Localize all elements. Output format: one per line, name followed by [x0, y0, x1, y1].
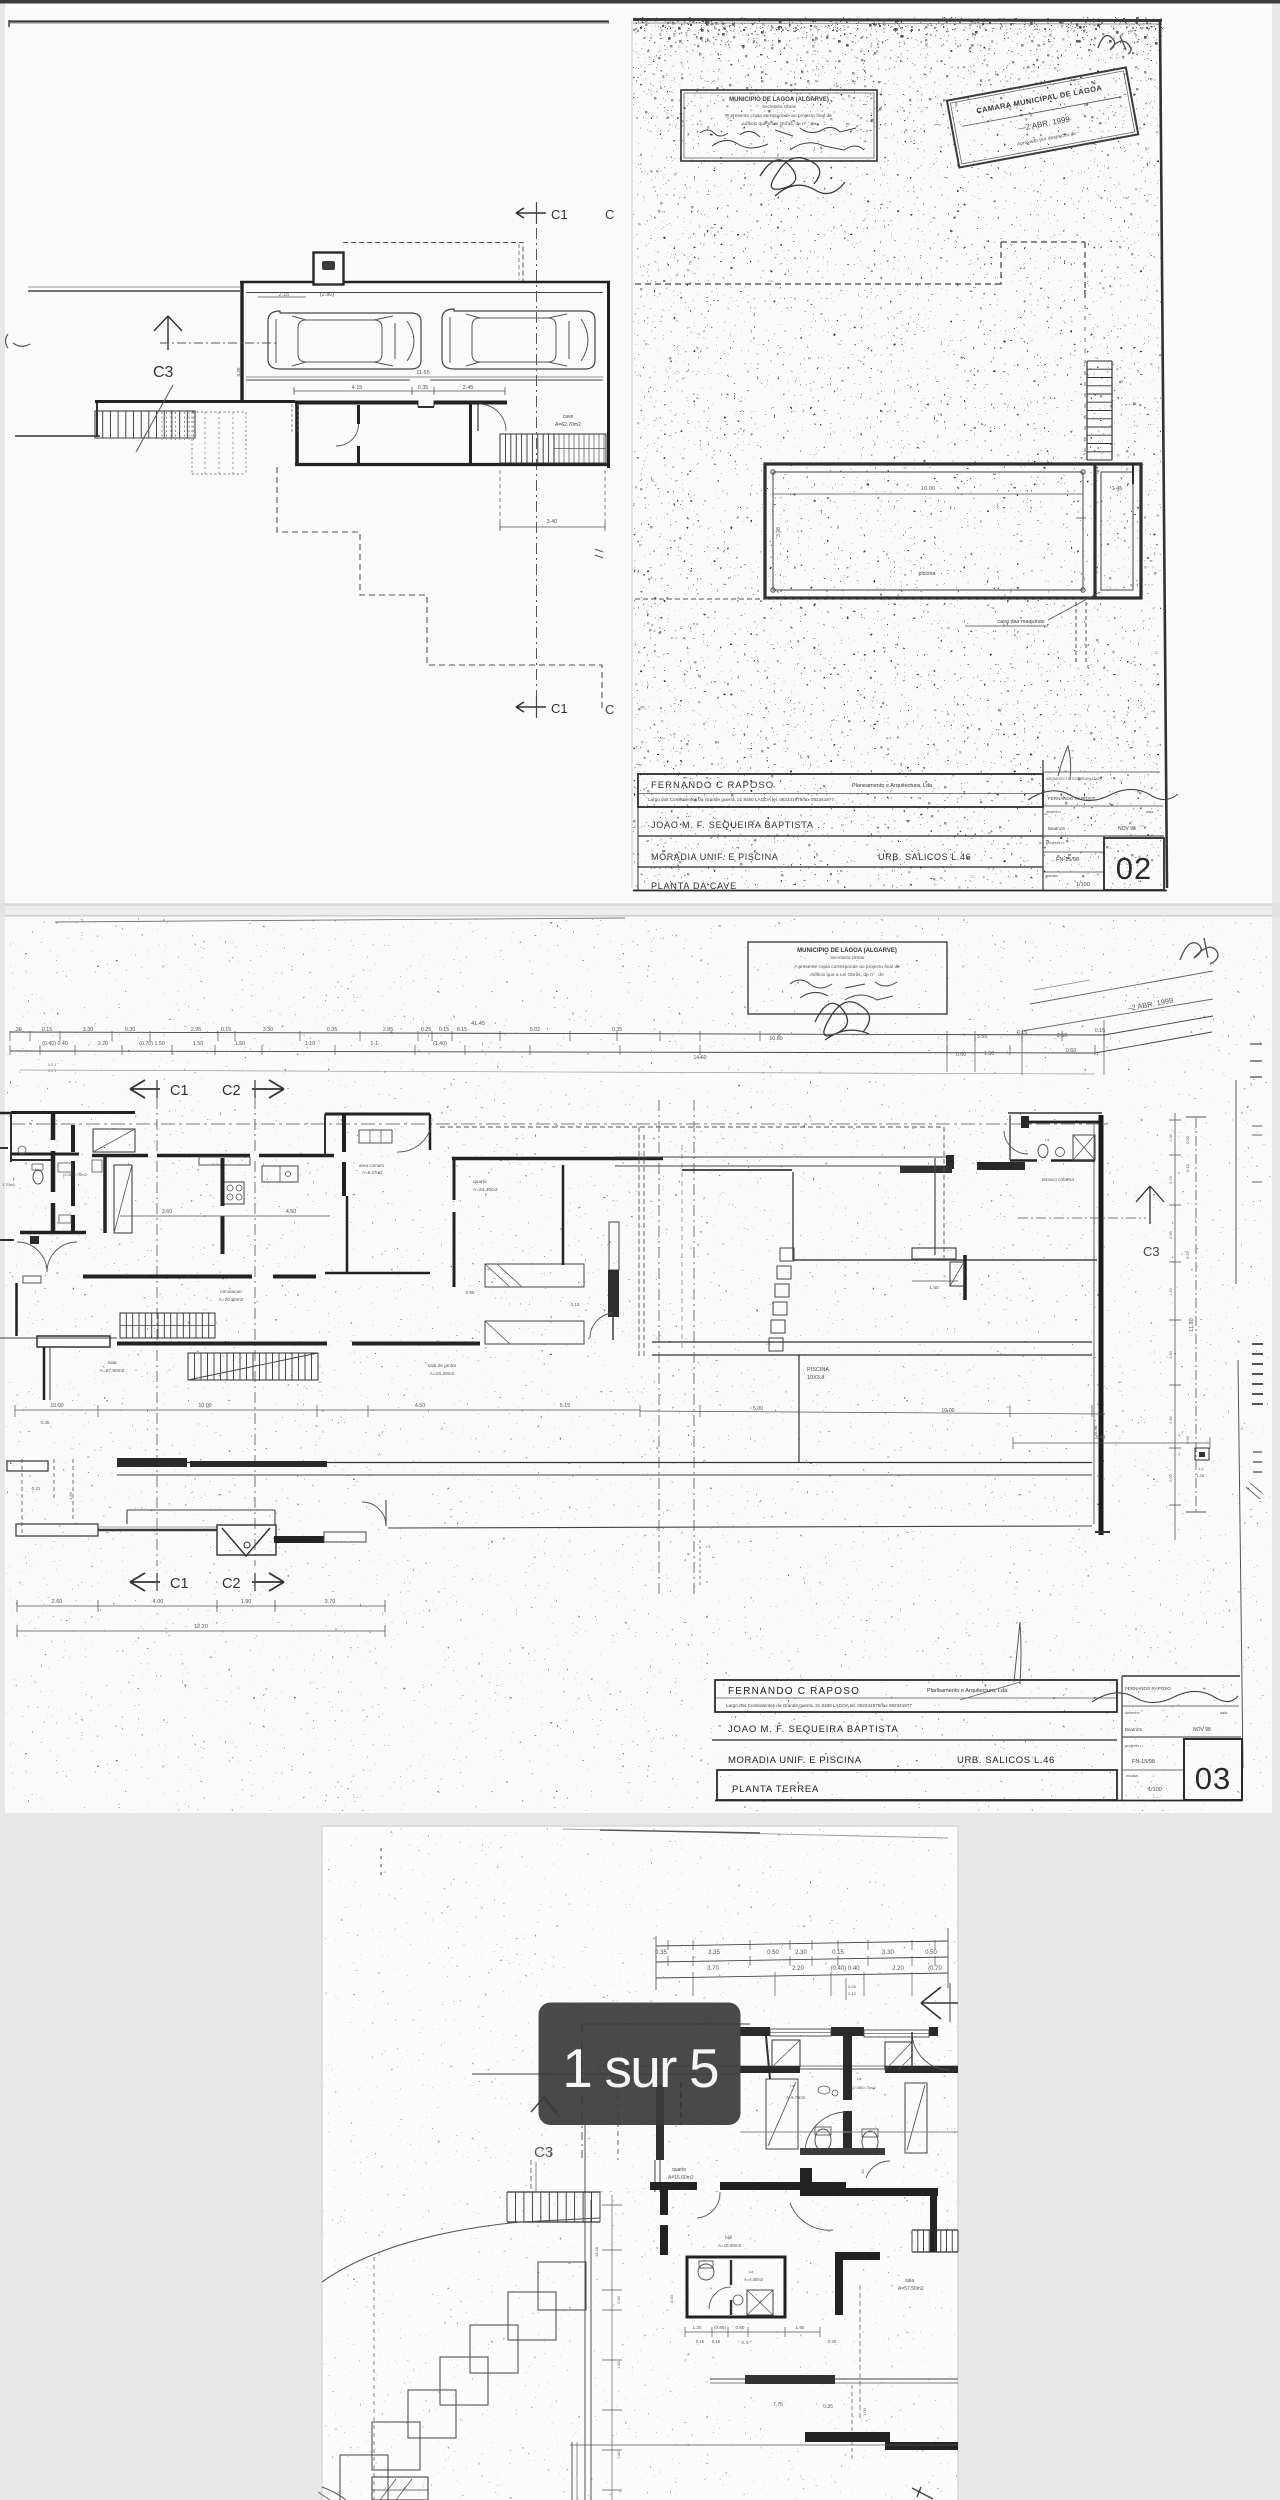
svg-text:C: C — [605, 207, 614, 222]
page2 plan: left bottom dashed verticals — [21, 1459, 23, 1537]
page1: noise region right border — [1160, 20, 1167, 888]
page3: right ladder hatch — [912, 2229, 958, 2231]
page3: left dashed vertical — [373, 2257, 375, 2500]
page1: pool corner dots — [771, 470, 775, 474]
page2 plan: bathroom bottom wall — [20, 1231, 86, 1235]
page1 titleblock: project row — [638, 866, 1043, 868]
svg-text:C: C — [605, 702, 614, 717]
page2 plan: pool band lines — [652, 1341, 1092, 1343]
page2: dim band tick marks — [9, 1031, 11, 1041]
page2 plan: long ground line — [388, 1526, 1092, 1528]
page1: dim row under garage — [294, 390, 505, 392]
page2: C2 section line — [254, 1098, 256, 1566]
page1: car 2 — [442, 309, 595, 369]
page2 plan: left outer wall and arcs — [15, 1283, 18, 1336]
page2 titleblock: client row — [712, 1739, 1117, 1741]
page1: pool ladder hatch — [1086, 361, 1088, 460]
page3: caret arrow below tooltip left — [531, 2097, 557, 2112]
page3: bottom left corner curve — [322, 2487, 346, 2500]
page1 titleblock: architect box — [638, 774, 1043, 807]
page2: C1 section line — [156, 1098, 158, 1566]
page2 plan: right margin pencil ticks — [1252, 1125, 1262, 1127]
page2 plan: quarto beds — [485, 1264, 584, 1287]
page3: sala walls — [835, 2252, 843, 2315]
page2 plan: hatch wardrobe top-left — [93, 1129, 135, 1152]
page1: rotated camara municipal stamp — [947, 67, 1138, 167]
page3: bottom-left retaining structure — [372, 2477, 428, 2500]
page3: tooltip 1 sur 5 — [539, 2003, 741, 2126]
svg-text:MORADIA UNIF. E PISCINA: MORADIA UNIF. E PISCINA — [651, 852, 778, 862]
page2 plan: door arc right of entry — [362, 1502, 386, 1526]
page2: dimension band line 1 — [10, 1032, 1104, 1035]
page1: corridor top wall below garage — [295, 401, 507, 405]
page1: garage outer walls — [240, 281, 313, 284]
page3 plan: right walls top band — [740, 2027, 770, 2036]
page1: cave stair hatch — [500, 434, 554, 463]
svg-text:casa das maquinas: casa das maquinas — [997, 619, 1045, 625]
page3 plan: right door arc — [912, 2032, 950, 2070]
page2 plan: corridor walls — [83, 1275, 252, 1279]
svg-text:desenho: desenho — [1046, 810, 1061, 814]
svg-text:C1: C1 — [551, 207, 568, 222]
svg-text:3.98: 3.98 — [776, 527, 782, 537]
page2 plan: second vertical wall x73 — [71, 1125, 75, 1232]
page2: bottom dim row 1 — [17, 1605, 385, 1607]
page2 plan: left L wall structure — [37, 1336, 110, 1347]
page1: dashed property boundary upper — [635, 283, 1001, 285]
svg-text:URB. SALICOS L.46: URB. SALICOS L.46 — [878, 852, 971, 862]
svg-text:escala: escala — [1046, 873, 1058, 878]
page1: chimney box on garage top wall — [314, 253, 344, 285]
page3: terrace edge lines — [710, 2378, 958, 2380]
page3: bottom right stepped wall — [805, 2432, 890, 2442]
page3 plan: bottom door arcs — [805, 2112, 845, 2150]
page3: bottom ground line — [570, 2444, 958, 2446]
svg-text:1/100: 1/100 — [1076, 882, 1090, 888]
page1 titleblock: client row — [638, 835, 1043, 837]
page2 plan: sala bottom thick wall segments — [117, 1458, 187, 1467]
page3: dim vertical with ticks — [611, 2195, 613, 2500]
page3: big left arrow at right edge — [921, 1987, 958, 2019]
page3: hall bath cluster — [687, 2257, 785, 2317]
svg-text:NOV 98: NOV 98 — [1118, 826, 1136, 832]
page2 plan: thin wall x793 — [792, 1172, 794, 1260]
page2 plan: rough wall line — [98, 1529, 217, 1532]
page2: dimension band line 2 — [10, 1051, 1095, 1053]
svg-text:Largo dos Combatentes da Grand: Largo dos Combatentes da Grande guerra, … — [648, 797, 834, 802]
svg-text:1.45: 1.45 — [1112, 486, 1123, 492]
page1: long top boundary line — [9, 20, 609, 22]
page1: door arc to cave stairs — [479, 404, 506, 431]
page1: C1 arrow bottom — [516, 702, 546, 712]
page1: garage interior dim 2.15 — [258, 296, 306, 298]
page2: signature below stamp — [815, 1002, 870, 1040]
page2: pencil diagonal right corner — [1246, 1483, 1262, 1499]
page3 plan under tooltip: dark wall bar — [656, 2085, 664, 2160]
svg-text:edificio que a Lei Obras, de n: edificio que a Lei Obras, de nº , de — [742, 121, 816, 127]
page3: top wall of hall — [650, 2182, 846, 2190]
page2 plan: V entry symbol — [217, 1525, 276, 1555]
page1: scanned noise field region — [633, 20, 1161, 888]
page3: verticals below C3 — [530, 2160, 532, 2192]
page2 plan: right dim column — [1174, 1113, 1176, 1540]
svg-text:C3: C3 — [153, 364, 174, 381]
page2 plan: bench right — [912, 1248, 956, 1259]
page3 plan: horizontal lines through tooltip — [596, 2065, 958, 2067]
page2 plan: entry step outline — [126, 1510, 128, 1524]
page2 plan: small fixtures between walls — [58, 1163, 72, 1172]
page3: sparse noise — [323, 1827, 957, 2499]
page1: left protruding terrace walls — [95, 400, 295, 403]
page3 plan: hatch box 1 — [772, 2040, 800, 2067]
page2 plan: wc fixtures left — [33, 1170, 43, 1184]
page1: left stair hatch — [95, 411, 195, 438]
svg-text:C1: C1 — [551, 701, 568, 716]
page2 plan: quarto door arc — [590, 1313, 613, 1338]
page2: rotated date stamp fragment — [1030, 971, 1213, 1004]
page 2 sheet (planta terrea) — [5, 917, 1272, 1813]
page1: cave grid hatch right — [554, 434, 606, 463]
page2: top scan line — [55, 918, 625, 922]
svg-text:10.00: 10.00 — [921, 486, 935, 492]
page2 plan: north arrow C3 — [1149, 1186, 1151, 1224]
page1: noise region top border — [633, 20, 1162, 21]
page2 plan: terrace bath — [1010, 1159, 1095, 1162]
svg-text:cave: cave — [563, 414, 574, 420]
page2: dashed line x682 — [681, 1145, 683, 1350]
svg-text:A=62.70m2: A=62.70m2 — [555, 422, 581, 428]
page2 plan: dark bar and outline bar right of entry — [274, 1536, 324, 1543]
page2: section line x659 — [658, 1100, 660, 1595]
page1: dotted grid right of stair — [161, 412, 163, 440]
page2 plan: left cluster wall vertical — [51, 1112, 56, 1233]
page2 plan: kitchen walls — [103, 1157, 107, 1233]
svg-text:2.15: 2.15 — [279, 292, 290, 298]
page1: road line to garage — [28, 290, 240, 292]
page3 plan: left door leaf box — [766, 2079, 798, 2149]
page2 plan: small dashed below ground line — [699, 1540, 701, 1585]
svg-text:JOAO M. F. SEQUEIRA BAPTISTA: JOAO M. F. SEQUEIRA BAPTISTA — [651, 820, 814, 830]
svg-text:1 sur 5: 1 sur 5 — [562, 2037, 718, 2099]
page1: pool outer walls — [765, 464, 1141, 598]
page1: dashed pair below garage wall — [291, 404, 293, 432]
svg-text:Secretaria Obras: Secretaria Obras — [762, 104, 797, 109]
page3: dim band lines — [656, 1941, 948, 1946]
page1: dashed lines near pool — [635, 598, 1090, 600]
page2: C1 C2 arrows bottom — [130, 1573, 160, 1591]
page2 plan: top-left outer wall — [11, 1111, 135, 1114]
page2: section line x694 — [693, 1100, 695, 1595]
svg-text:11.65: 11.65 — [416, 370, 429, 376]
page3: left dotted vertical — [380, 1848, 382, 1851]
page2: municipal stamp — [748, 942, 947, 1014]
page2 plan: area comum room — [325, 1113, 430, 1116]
page1: signature below stamp — [760, 158, 845, 196]
page3: vertical double lines left — [584, 2125, 586, 2500]
svg-text:3.40: 3.40 — [547, 519, 558, 525]
page3: top right angular walls — [800, 2168, 812, 2192]
top dark bar — [0, 0, 1280, 4]
page2 plan: terrace top right walls — [1008, 1112, 1102, 1114]
page1 titleblock: sheet number 02 — [1104, 838, 1164, 890]
page3 plan: lower gray line and bottom wall — [740, 2131, 958, 2133]
page1: C1 arrow top — [516, 208, 546, 218]
page1: C3 section arrow left — [154, 316, 182, 350]
page3 plan: hatch box 2 — [885, 2042, 912, 2070]
page2: C1 C2 arrows top — [130, 1080, 160, 1098]
page3 plan: lower fixtures — [815, 2129, 831, 2151]
page2 plan: dark hatch wall — [609, 1222, 619, 1270]
svg-text:4.15: 4.15 — [352, 385, 363, 391]
page2 plan: wall right of kitchen — [221, 1158, 225, 1254]
page3: road curve — [322, 2218, 600, 2282]
svg-text:BeatrizS: BeatrizS — [1048, 826, 1065, 831]
page3 plan under tooltip: dashdot verticals — [581, 2024, 583, 2160]
page2 plan: corridor bottom walls — [117, 1342, 327, 1346]
page2 plan: stair hatch B — [188, 1353, 318, 1380]
page1: C1 section line vertical — [536, 228, 538, 705]
page1: car 1 — [268, 311, 421, 369]
page2 plan: terrace left wall bars — [900, 1166, 952, 1173]
page1: noise region left border faint — [631, 20, 633, 888]
page2 titleblock: sheet name box — [717, 1770, 1117, 1800]
page2 plan: stair hatch A — [120, 1313, 215, 1338]
page2: right margin tick marks near dim band — [1250, 1043, 1262, 1045]
page2 plan: wall pair x=344 — [342, 1114, 346, 1196]
page gap band — [0, 903, 1280, 917]
page2 plan: entry left outlined bar — [16, 1524, 98, 1536]
page2 plan: long thick right wall — [1099, 1115, 1104, 1535]
page3 plan: right door leaf box — [905, 2083, 927, 2153]
page3 plan under tooltip: top wall line — [585, 2023, 750, 2025]
page3: cascade of terrace squares — [538, 2262, 586, 2310]
svg-text:2.45: 2.45 — [463, 385, 474, 391]
page3: ladder hatch upper — [507, 2191, 600, 2193]
page3: dim band ticks — [667, 1940, 669, 1950]
page2: dimension band line 3 faint — [20, 1070, 1095, 1074]
page1: pool inner line and dims — [773, 493, 1083, 495]
page3 plan: mid wall band — [740, 2066, 800, 2073]
page3 plan: central wall pair — [843, 2027, 852, 2148]
svg-text:ARQUITECTO COORDENADOR: ARQUITECTO COORDENADOR — [1046, 777, 1103, 781]
svg-text:PLANTA DA CAVE: PLANTA DA CAVE — [651, 881, 737, 891]
page3: small dim stack below — [845, 1978, 847, 2000]
page2 plan: stepping squares column — [780, 1248, 794, 1261]
svg-text:(2.80): (2.80) — [320, 292, 335, 298]
page 3 sheet (partial) — [322, 1826, 958, 2500]
page2 plan: mid dim row — [15, 1409, 640, 1411]
svg-text:MUNICIPIO DE LAGOA (ALGARVE): MUNICIPIO DE LAGOA (ALGARVE) — [729, 97, 829, 103]
svg-text:0.30: 0.30 — [236, 367, 241, 376]
page2 plan: pantry hatch — [114, 1165, 132, 1233]
page3: bottom right diagonal arrow — [912, 2487, 933, 2499]
page1: dotted rectangle below — [192, 412, 246, 474]
page2 titleblock: right column — [1121, 1676, 1123, 1800]
page1: pencil squiggle top right corner — [1098, 36, 1131, 54]
svg-text:02: 02 — [1116, 851, 1152, 886]
page2 plan: dashed boundary right of quarto — [440, 1126, 944, 1128]
svg-text:A presente copia corresponde a: A presente copia corresponde ao projecto… — [726, 113, 832, 119]
svg-text:data: data — [1146, 810, 1154, 814]
page3: right room walls — [870, 2188, 938, 2196]
page3: wall pair below quarto — [660, 2190, 668, 2255]
page2: sparse noise — [6, 918, 1270, 1811]
page2 titleblock: architect box — [715, 1680, 1117, 1712]
page3: top scan line — [563, 1829, 948, 1838]
page2 plan: interior dim row 3.60 4.50 — [120, 1215, 330, 1217]
page2 plan: dim 3.40 and exit box — [1013, 1442, 1210, 1444]
page1 titleblock: right column cells — [1042, 760, 1044, 890]
svg-text:Planeamento e Arquitectura, Ld: Planeamento e Arquitectura, Lda. — [852, 783, 934, 789]
page1 titleblock: signature squiggle — [1028, 789, 1178, 800]
page1: cave room walls — [295, 402, 299, 465]
page2: bottom dim row 2 — [17, 1630, 385, 1632]
page2 plan: left edge wall fragments — [0, 1112, 11, 1115]
page2 plan: long dashdot centerline — [11, 1123, 1110, 1125]
svg-text:FERNANDO C RAPOSO: FERNANDO C RAPOSO — [651, 780, 774, 791]
page1: stepped dashed boundary — [277, 467, 602, 712]
page2 plan: kitchen counter and appliances — [199, 1157, 250, 1165]
page1: dashed setback rectangle — [343, 243, 523, 283]
page2 plan: quarto room top wall — [452, 1157, 663, 1161]
page2 plan: right cluster walls — [963, 1255, 967, 1300]
page2 titleblock: sheet number 03 — [1184, 1739, 1242, 1800]
page2: pencil mark top right — [1180, 938, 1218, 964]
page 1 sheet (planta da cave) — [5, 4, 1272, 904]
page2 titleblock: signature squiggle — [1092, 1691, 1238, 1702]
svg-text:piscina: piscina — [918, 571, 936, 577]
page1: dim 3.40 bottom right — [499, 470, 501, 527]
svg-text:projecto n.: projecto n. — [1046, 840, 1065, 845]
page1: municipal stamp rectangular — [681, 90, 877, 161]
page2 plan: quarto left wall — [453, 1158, 456, 1287]
svg-text:0.35: 0.35 — [418, 385, 429, 391]
svg-text:FN-15/98: FN-15/98 — [1056, 857, 1079, 863]
page3: dims below bath — [685, 2331, 820, 2333]
page2 plan: quarto inner wall — [562, 1165, 565, 1265]
page2 plan: sala sw corner outlined wall — [7, 1461, 48, 1471]
